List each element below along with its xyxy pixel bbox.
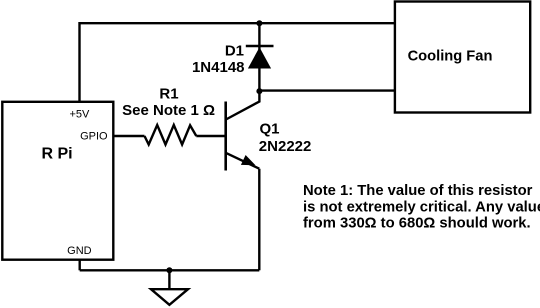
svg-text:GPIO: GPIO bbox=[80, 131, 108, 143]
transistor Q1 bbox=[226, 91, 260, 170]
R Pi box bbox=[2, 102, 113, 260]
svg-text:Cooling Fan: Cooling Fan bbox=[408, 48, 493, 64]
wire diode branch vertical bbox=[258, 23, 260, 91]
note text bbox=[303, 183, 540, 231]
wire resistor to base bbox=[196, 135, 225, 137]
svg-text:1N4148: 1N4148 bbox=[192, 59, 245, 76]
svg-text:See Note 1 Ω: See Note 1 Ω bbox=[122, 102, 215, 119]
diode D1 bbox=[246, 46, 274, 69]
svg-text:GND: GND bbox=[67, 245, 92, 257]
node collector junction bbox=[256, 88, 262, 94]
svg-text:2N2222: 2N2222 bbox=[259, 138, 312, 155]
wire collector node to fan bbox=[259, 89, 395, 91]
node ground junction bbox=[166, 267, 172, 273]
node top junction bbox=[256, 20, 262, 26]
wire +5V rail (R Pi top to fan) bbox=[80, 23, 395, 102]
svg-text:+5V: +5V bbox=[69, 109, 90, 121]
wire GPIO to resistor bbox=[113, 135, 144, 137]
svg-text:Note 1: The value of this resi: Note 1: The value of this resistor bbox=[303, 183, 533, 199]
Cooling Fan box bbox=[395, 2, 530, 113]
svg-text:is not extremely critical. Any: is not extremely critical. Any value bbox=[303, 199, 540, 215]
ground bbox=[151, 270, 188, 305]
resistor R1 bbox=[145, 125, 197, 145]
svg-text:from 330Ω to 680Ω should work.: from 330Ω to 680Ω should work. bbox=[303, 216, 531, 232]
svg-text:R Pi: R Pi bbox=[41, 146, 72, 163]
svg-text:Q1: Q1 bbox=[260, 120, 280, 137]
svg-text:R1: R1 bbox=[159, 86, 178, 103]
wire ground rail bbox=[80, 269, 260, 271]
wire emitter down bbox=[258, 169, 260, 271]
svg-text:D1: D1 bbox=[225, 42, 244, 59]
wire GND stub from R Pi bbox=[78, 260, 80, 271]
